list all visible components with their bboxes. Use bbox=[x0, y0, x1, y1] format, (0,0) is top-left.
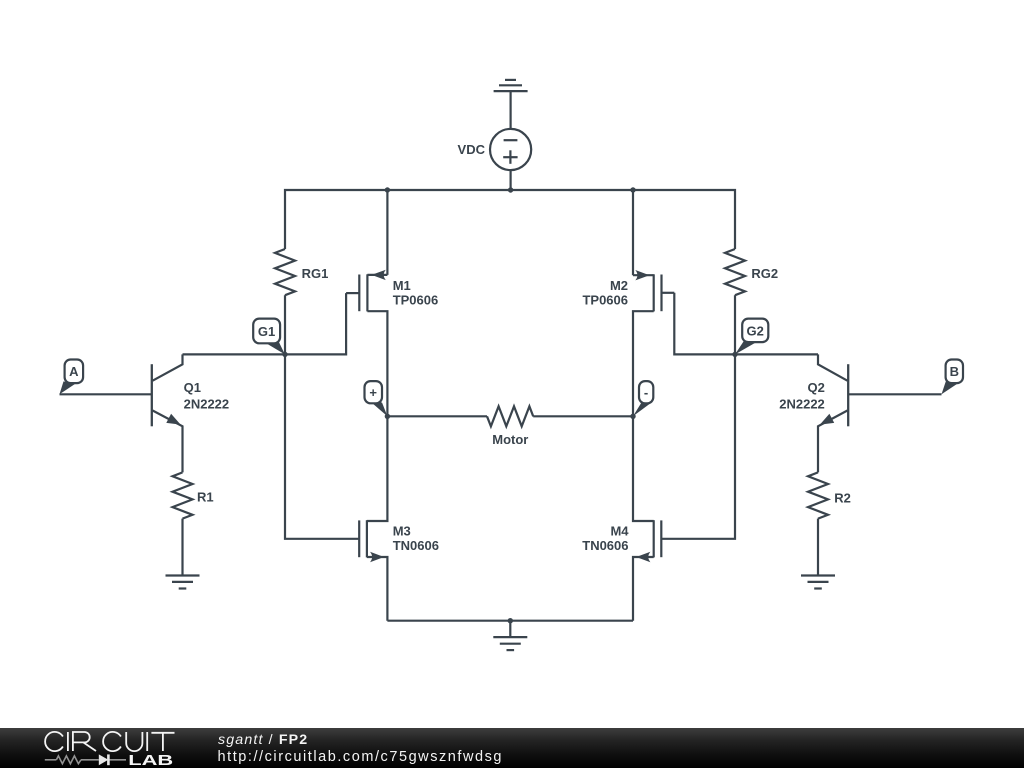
wire G2 down to M4 gate bbox=[661, 354, 735, 538]
node junction on rail at M1 bbox=[385, 187, 390, 192]
wire RG1 to node G1 bbox=[284, 295, 286, 354]
transistor Q1 2N2222 bbox=[60, 354, 183, 472]
banner url bbox=[218, 750, 504, 765]
svg-text:+: + bbox=[369, 385, 377, 400]
transistor M3 TN0606 bbox=[359, 416, 387, 620]
svg-text:A: A bbox=[69, 364, 79, 379]
svg-text:TN0606: TN0606 bbox=[582, 538, 628, 553]
svg-text:B: B bbox=[950, 364, 959, 379]
svg-text:Q1: Q1 bbox=[184, 380, 201, 395]
CircuitLab logo bbox=[0, 728, 200, 768]
svg-text:-: - bbox=[644, 385, 648, 400]
svg-text:G1: G1 bbox=[258, 324, 275, 339]
svg-text:R2: R2 bbox=[834, 491, 851, 506]
svg-text:TN0606: TN0606 bbox=[393, 538, 439, 553]
node junction on rail at VDC bbox=[508, 187, 513, 192]
banner title bbox=[218, 733, 308, 747]
node + flag bbox=[365, 381, 388, 416]
svg-text:2N2222: 2N2222 bbox=[184, 397, 230, 412]
voltage source VDC bbox=[490, 129, 531, 170]
transistor Q2 2N2222 bbox=[818, 354, 942, 472]
wire node G2 bbox=[674, 293, 818, 355]
wire G1 down to M3 gate bbox=[285, 354, 359, 538]
wire node G1 bbox=[183, 293, 347, 354]
svg-text:LAB: LAB bbox=[128, 751, 173, 768]
transistor M2 TP0606 bbox=[633, 190, 674, 416]
wire R1 to ground bbox=[181, 519, 183, 576]
svg-text:R1: R1 bbox=[197, 489, 214, 504]
wire motor row bbox=[387, 415, 487, 417]
svg-text:2N2222: 2N2222 bbox=[779, 397, 825, 412]
node G1 flag bbox=[253, 319, 285, 355]
wire VDC to rail bbox=[510, 170, 512, 190]
svg-text:M1: M1 bbox=[393, 278, 411, 293]
ground (bottom right) bbox=[801, 576, 835, 589]
svg-text:M3: M3 bbox=[393, 524, 411, 539]
resistor Motor bbox=[487, 406, 533, 426]
node - flag bbox=[633, 381, 653, 416]
svg-text:M2: M2 bbox=[610, 278, 628, 293]
resistor R1 bbox=[173, 472, 193, 518]
node junction on rail at M2 bbox=[630, 187, 635, 192]
svg-text:RG1: RG1 bbox=[302, 266, 329, 281]
wire RG2 to node G2 bbox=[734, 295, 736, 354]
svg-text:Q2: Q2 bbox=[807, 380, 824, 395]
transistor M4 TN0606 bbox=[633, 416, 661, 620]
node junction motor - bbox=[630, 414, 635, 419]
svg-text:RG2: RG2 bbox=[751, 266, 778, 281]
ground (top, flipped) bbox=[494, 80, 528, 129]
ground (bottom left) bbox=[166, 576, 200, 589]
node G2 flag bbox=[735, 319, 768, 355]
wire: top power rail with drops to RG1/RG2 bbox=[285, 190, 735, 249]
node junction G2 bbox=[732, 352, 737, 357]
svg-text:TP0606: TP0606 bbox=[393, 292, 439, 307]
ground (bottom center) bbox=[493, 637, 527, 650]
resistor R2 bbox=[808, 472, 828, 518]
svg-text:VDC: VDC bbox=[458, 142, 486, 157]
svg-text:M4: M4 bbox=[610, 524, 629, 539]
svg-text:TP0606: TP0606 bbox=[582, 292, 628, 307]
transistor M1 TP0606 bbox=[346, 190, 387, 416]
node B flag bbox=[942, 360, 964, 395]
wire R2 to ground bbox=[817, 519, 819, 576]
wire bottom (M3/M4 sources to ground) bbox=[387, 620, 633, 622]
svg-text:G2: G2 bbox=[747, 323, 764, 338]
resistor RG2 bbox=[725, 249, 745, 295]
node junction bottom ground bbox=[508, 618, 513, 623]
node junction motor + bbox=[385, 414, 390, 419]
resistor RG1 bbox=[275, 249, 295, 295]
svg-text:Motor: Motor bbox=[492, 432, 528, 447]
node A flag bbox=[60, 360, 84, 395]
footer banner bbox=[0, 728, 1024, 768]
node junction G1 bbox=[282, 352, 287, 357]
